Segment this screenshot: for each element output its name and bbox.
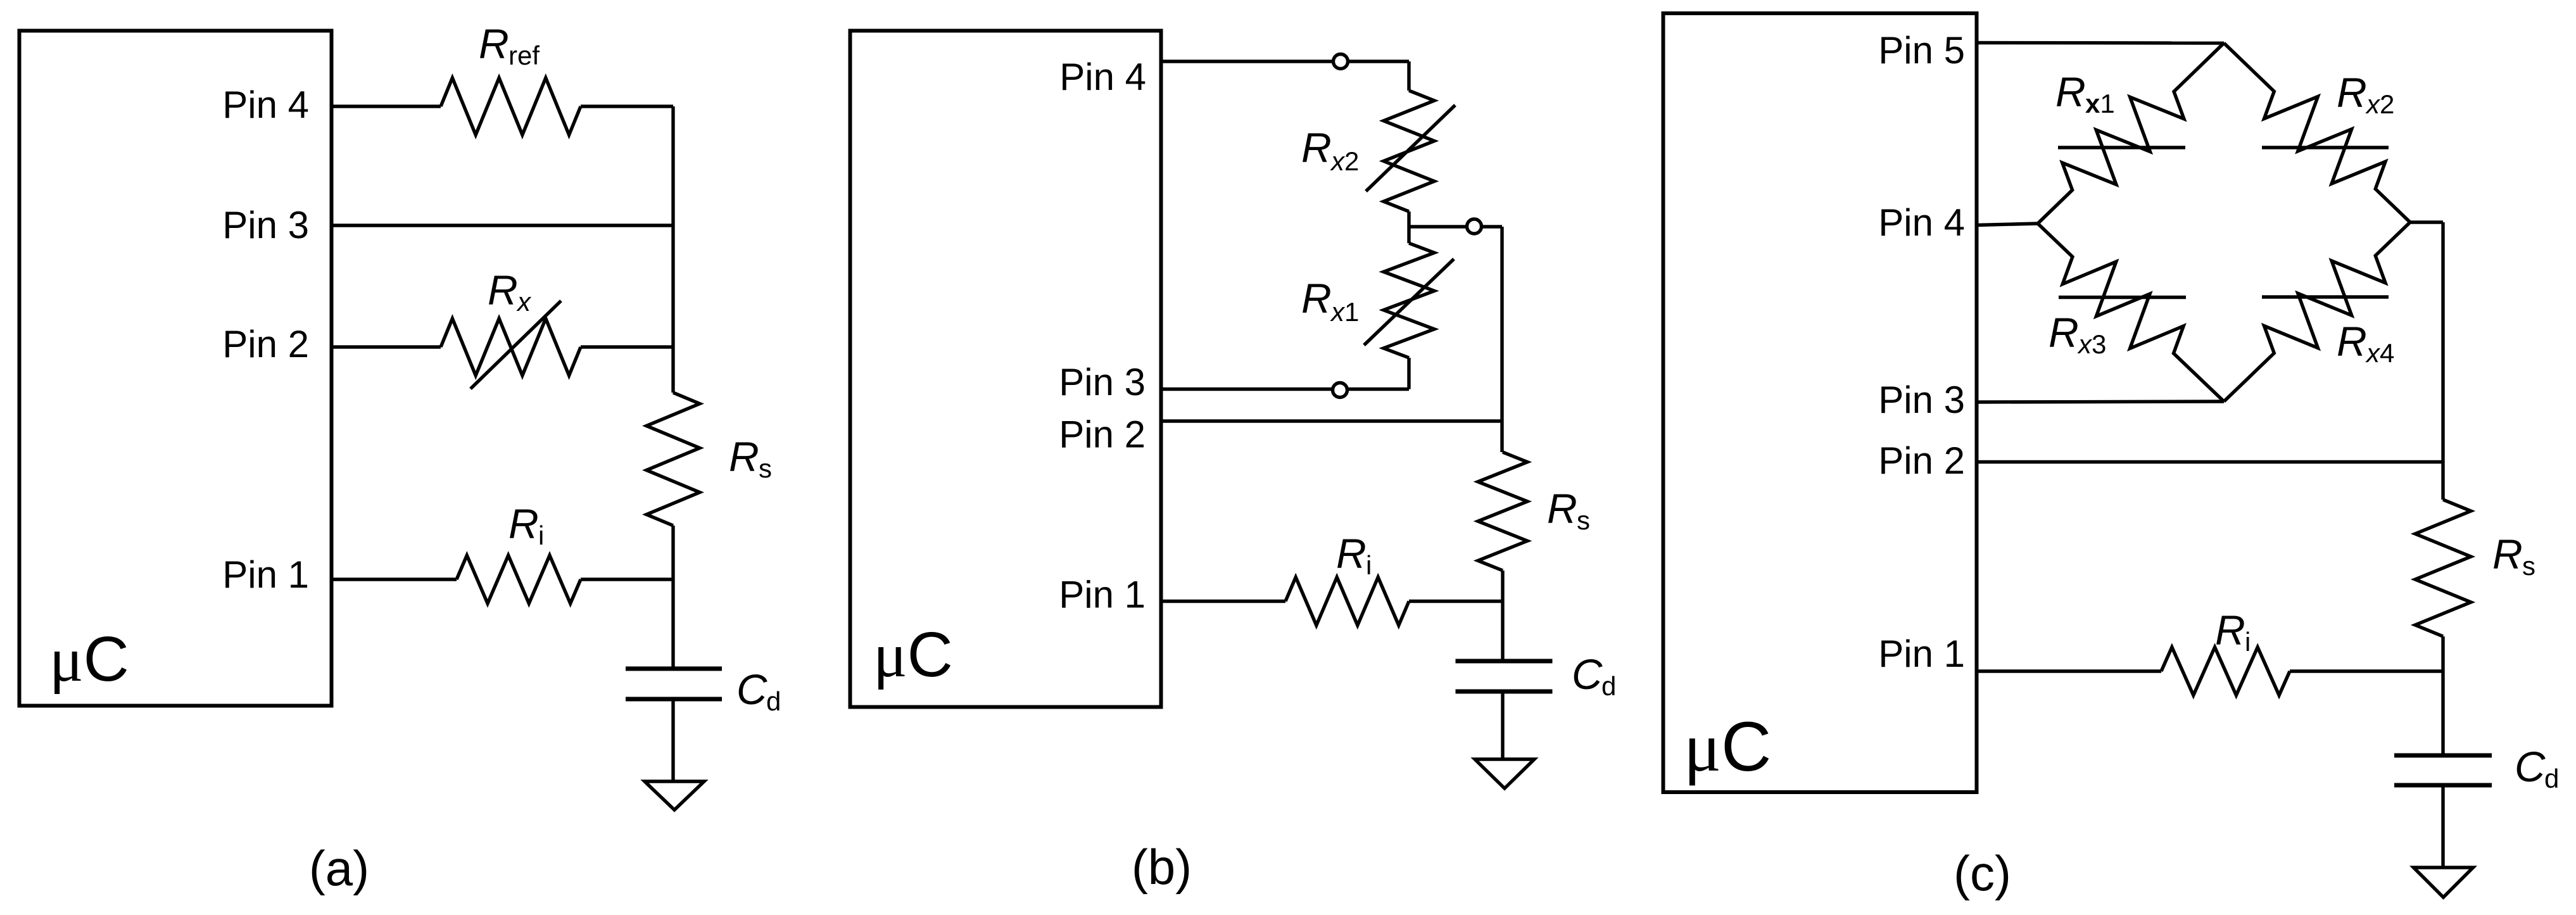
svg-text:Pin 3: Pin 3 [1878,379,1965,421]
svg-text:C: C [2515,743,2546,791]
svg-text:Pin 2: Pin 2 [1059,413,1146,456]
svg-text:x: x [516,287,532,317]
svg-text:R: R [1547,485,1577,532]
svg-text:(c): (c) [1954,845,2011,901]
svg-text:R: R [508,500,539,547]
svg-text:(b): (b) [1132,839,1192,895]
svg-text:μC: μC [1684,708,1771,786]
svg-text:Pin 1: Pin 1 [222,553,309,596]
svg-text:d: d [2544,764,2559,793]
svg-text:Pin 4: Pin 4 [222,84,309,126]
svg-text:Pin 4: Pin 4 [1059,56,1146,98]
svg-text:R: R [2055,68,2086,115]
svg-text:s: s [2522,551,2535,581]
svg-text:x3: x3 [2077,329,2106,359]
svg-text:s: s [1577,505,1590,535]
svg-text:Pin 4: Pin 4 [1878,201,1965,244]
svg-text:R: R [479,20,509,67]
svg-text:R: R [2492,531,2523,577]
svg-text:x4: x4 [2365,338,2394,368]
svg-text:Pin 1: Pin 1 [1878,633,1965,675]
svg-text:i: i [2245,627,2251,657]
svg-text:x2: x2 [2365,89,2394,119]
svg-text:R: R [1336,530,1367,577]
svg-text:R: R [2215,607,2245,653]
svg-text:i: i [538,521,544,550]
svg-text:Pin 2: Pin 2 [1878,439,1965,482]
svg-text:s: s [759,453,772,483]
svg-text:C: C [1572,651,1603,698]
svg-text:C: C [736,666,767,714]
svg-text:R: R [2337,318,2367,365]
svg-text:x1: x1 [1330,297,1359,327]
svg-text:ref: ref [508,41,540,70]
svg-text:d: d [766,686,781,716]
svg-text:Pin 3: Pin 3 [222,204,309,246]
svg-text:Pin 3: Pin 3 [1059,361,1146,403]
svg-text:R: R [488,267,518,313]
svg-text:R: R [1301,124,1332,171]
svg-text:μC: μC [873,619,953,690]
svg-text:i: i [1366,550,1372,580]
svg-text:x1: x1 [2085,89,2115,118]
svg-text:x2: x2 [1330,146,1359,176]
svg-text:μC: μC [49,624,129,695]
svg-text:R: R [729,433,759,480]
svg-text:Pin 1: Pin 1 [1059,574,1146,616]
svg-text:R: R [1301,275,1332,322]
svg-text:Pin 5: Pin 5 [1878,29,1965,72]
svg-text:R: R [2337,69,2367,116]
svg-text:d: d [1601,671,1616,701]
svg-text:(a): (a) [309,840,369,896]
svg-text:R: R [2049,309,2079,356]
svg-text:Pin 2: Pin 2 [222,323,309,365]
